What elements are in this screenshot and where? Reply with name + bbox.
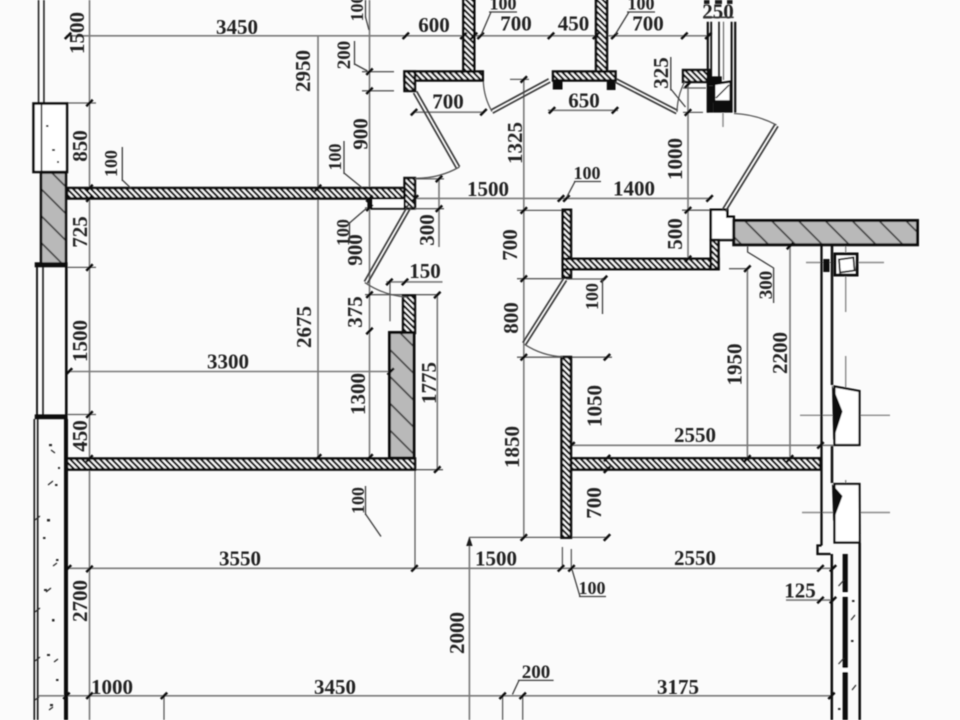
extension: 1950 top	[729, 268, 747, 270]
svg-text:100: 100	[325, 144, 345, 171]
svg-text:1850: 1850	[500, 426, 524, 468]
svg-text:2700: 2700	[68, 580, 92, 622]
extension: 375 top / 1775 top	[365, 294, 437, 296]
dim line: 2000 vertical with up arrow	[468, 537, 470, 720]
wall stub W4	[403, 296, 415, 334]
extension: 150 vertical	[389, 282, 391, 321]
ventilation shaft (250 wide)	[704, 0, 735, 113]
left exterior concrete wall bottom	[33, 419, 35, 720]
window W1 left (box)	[34, 104, 68, 173]
door D6: top right large swing (1000)	[722, 114, 778, 212]
svg-text:2950: 2950	[291, 50, 315, 92]
dim line: 150 horizontal	[386, 281, 442, 283]
svg-text:2550: 2550	[674, 423, 716, 447]
extension: shaft bottom y=112.4	[683, 111, 703, 113]
svg-text:3300: 3300	[207, 350, 249, 374]
extension: opening edge x=415 down to 3550 line	[414, 470, 416, 569]
wall stem W7 top	[463, 0, 474, 72]
extension: wall x=562 down to 1500 line	[561, 547, 563, 569]
axis line: window2 right horizontal	[802, 512, 890, 514]
svg-text:1000: 1000	[663, 138, 687, 180]
svg-text:900: 900	[349, 118, 373, 150]
axis line: vent window top right horizontal	[806, 262, 884, 264]
wall jamb W2	[405, 178, 416, 209]
dim line: 700 door jamb top	[413, 111, 485, 113]
dim line: left vertical chain (1500/850/725/1500/450/2700)	[89, 0, 91, 720]
door D1: top-left vertical opening, leaf + arc	[414, 91, 460, 178]
svg-text:1775: 1775	[417, 362, 441, 404]
corridor wall block (white)	[711, 210, 734, 240]
svg-text:700: 700	[632, 12, 664, 36]
dim line: bottom chain 1000/3450/200/3175	[38, 695, 833, 697]
dim line: 3550/1500/2550/125 horizontal	[68, 567, 834, 569]
wall W15: corridor right return	[711, 240, 719, 269]
axis line: below shaft	[722, 113, 724, 127]
dim line: 300 at jamb	[438, 179, 440, 248]
svg-text:200: 200	[334, 41, 355, 70]
dim line: 1775 vertical	[436, 295, 438, 470]
axis line: window1 right horizontal	[800, 414, 890, 416]
extension: 200 dim short lines	[362, 71, 394, 73]
extension: gray wall bottom y=267.5	[68, 266, 96, 268]
window W2 left (triple line)	[36, 267, 38, 415]
left wall gray pier (hatched concrete)	[41, 173, 66, 265]
svg-text:450: 450	[68, 420, 92, 452]
svg-text:375: 375	[343, 296, 367, 328]
gray concrete pier W5	[390, 333, 415, 459]
wall W16: middle vertical	[562, 357, 572, 538]
svg-text:100: 100	[101, 150, 121, 177]
door D2: second vertical opening, leaf + arc	[364, 205, 411, 297]
threshold box W3	[372, 199, 405, 209]
svg-text:1500: 1500	[475, 547, 517, 571]
svg-text:600: 600	[418, 13, 450, 37]
svg-text:325: 325	[649, 57, 673, 89]
extension: 1775 bottom	[415, 469, 443, 471]
svg-text:1950: 1950	[723, 344, 747, 386]
svg-text:725: 725	[68, 216, 92, 248]
svg-text:850: 850	[68, 130, 92, 162]
svg-text:700: 700	[500, 12, 532, 36]
right exterior wall inner face	[820, 246, 822, 546]
svg-text:3450: 3450	[216, 15, 258, 39]
svg-text:100: 100	[582, 283, 602, 310]
svg-text:100: 100	[347, 0, 367, 22]
svg-text:700: 700	[432, 90, 464, 114]
svg-text:450: 450	[558, 12, 590, 36]
extension: corridor wall top y=210	[517, 209, 562, 211]
wall W10: top horizontal with end jambs	[553, 72, 616, 81]
dim line: top horizontal chain (3450/600/100/700/450/100/700)	[66, 35, 710, 37]
svg-text:700: 700	[582, 487, 606, 519]
svg-text:900: 900	[343, 234, 367, 266]
svg-text:2000: 2000	[445, 612, 469, 654]
dim line: 2200 vertical	[789, 246, 791, 459]
extension: 1325 top	[510, 78, 529, 80]
svg-text:1000: 1000	[91, 675, 133, 699]
extension: wall bottom level y=537.4	[469, 536, 607, 538]
dim line: 125 right	[786, 599, 833, 601]
left exterior wall: top double face lines	[38, 0, 40, 104]
extension: window sill y=414.5	[68, 414, 96, 416]
wall stem W9 top	[596, 0, 607, 72]
extension: 1050 top y=357	[517, 356, 561, 358]
svg-text:1500: 1500	[65, 12, 89, 54]
svg-text:700: 700	[498, 229, 522, 261]
svg-text:1050: 1050	[583, 385, 607, 427]
svg-text:1325: 1325	[503, 122, 527, 164]
extension: 900 bottom y=208	[365, 207, 404, 209]
svg-text:300: 300	[415, 214, 439, 246]
svg-text:800: 800	[499, 302, 523, 334]
dimension ticks	[86, 100, 92, 106]
door D4: top middle right swing	[615, 79, 685, 114]
concrete speckles	[43, 125, 60, 706]
door D5: corridor door, leaf + arc	[523, 279, 567, 357]
dim line: 1325/700/800/1850 vertical column	[523, 79, 525, 537]
wall W6: bottom horizontal left part	[67, 459, 415, 470]
extension lines below bottom dim	[163, 696, 165, 720]
extension: window sill y=103	[67, 102, 96, 104]
wall W6b: bottom horizontal right part	[571, 458, 821, 469]
dim line: 1950 vertical	[746, 269, 748, 459]
window sash symbol 1 (right wall)	[835, 387, 860, 446]
right wall bottom channel	[831, 554, 834, 720]
svg-text:125: 125	[784, 579, 816, 603]
label underlines and leaders	[122, 0, 773, 695]
svg-text:3175: 3175	[657, 675, 699, 699]
wall W11: top right short piece	[683, 70, 710, 82]
gray wall top right	[734, 221, 918, 245]
dim line: 3300 horizontal	[69, 371, 391, 373]
svg-text:250: 250	[702, 0, 734, 24]
right wall window frame line	[831, 246, 834, 385]
wall W13: corridor vertical	[563, 210, 571, 278]
svg-text:100: 100	[574, 163, 601, 183]
extension: W13 bottom y=278.5	[517, 278, 562, 280]
svg-text:150: 150	[409, 259, 441, 283]
mullion black bar	[823, 259, 829, 272]
svg-text:1400: 1400	[613, 177, 655, 201]
svg-text:1500: 1500	[68, 320, 92, 362]
svg-text:100: 100	[579, 578, 606, 598]
dim line: 200/900/375/1300 vertical column	[369, 0, 371, 458]
svg-text:2200: 2200	[768, 332, 792, 374]
svg-text:2675: 2675	[292, 306, 316, 348]
svg-text:500: 500	[663, 218, 687, 250]
dim line: 650 wall top	[548, 109, 618, 111]
svg-text:650: 650	[568, 89, 600, 113]
svg-text:1500: 1500	[467, 177, 509, 201]
dim line: 2550 horizontal mid	[563, 444, 836, 446]
svg-text:1300: 1300	[346, 373, 370, 415]
svg-text:3450: 3450	[314, 675, 356, 699]
wall W8: top horizontal with left jamb	[405, 72, 483, 81]
svg-text:3550: 3550	[219, 547, 261, 571]
dim line: 1500/1400 horizontal mid	[415, 197, 712, 199]
dim line: 325/1000/500 vertical column	[687, 85, 689, 260]
wall W1: horizontal partition y188-198	[67, 188, 405, 199]
extension: 100 wall thickness tick line y=279	[566, 278, 606, 280]
left wall sill bar	[35, 414, 68, 419]
vent duct box right	[835, 254, 857, 275]
door D3: top middle left swing	[483, 79, 550, 113]
window sash symbol 2 (right wall)	[835, 484, 860, 543]
dim line: 2950/2675 vertical	[317, 36, 319, 458]
wall W14: corridor horizontal	[563, 259, 719, 269]
svg-text:2550: 2550	[674, 546, 716, 570]
axis line: right wall vertical segments	[845, 245, 847, 312]
